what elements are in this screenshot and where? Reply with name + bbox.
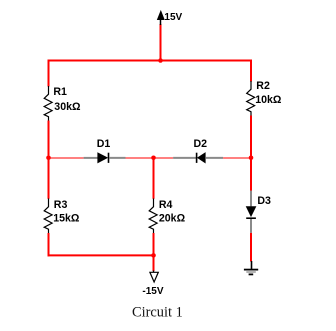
junction node: right rail / middle rail: [249, 156, 254, 161]
svg-text:15kΩ: 15kΩ: [53, 212, 80, 224]
ground: [244, 261, 258, 274]
wire: right rail upper: [250, 60, 252, 82]
resistor R2: [247, 81, 255, 116]
svg-text:D1: D1: [97, 138, 111, 150]
junction node: left rail / middle rail: [46, 156, 51, 161]
svg-text:10kΩ: 10kΩ: [255, 94, 282, 106]
resistor R3: [44, 199, 52, 234]
junction node: middle rail / R4 branch: [151, 156, 156, 161]
svg-text:R1: R1: [53, 86, 67, 98]
wire: +15V stem: [160, 24, 162, 61]
svg-text:D3: D3: [257, 195, 271, 207]
diode D1: [84, 153, 126, 163]
wire: top rail: [48, 60, 253, 62]
wire: middle rail segment C: [223, 157, 251, 159]
wire: right rail lower: [250, 233, 252, 262]
diode D2: [173, 153, 223, 163]
junction node: bottom rail / -15V: [151, 253, 156, 258]
svg-text:20kΩ: 20kΩ: [159, 212, 186, 224]
svg-text:30kΩ: 30kΩ: [54, 101, 81, 113]
svg-text:R2: R2: [256, 80, 270, 92]
power -15V arrow: [150, 271, 158, 283]
wire: bottom rail: [48, 254, 155, 256]
wire: left rail middle: [48, 121, 50, 199]
svg-text:Circuit 1: Circuit 1: [132, 304, 183, 320]
junction node: top rail / +15V: [158, 58, 163, 63]
wire: middle rail segment B: [126, 157, 174, 159]
resistor R1: [44, 86, 52, 121]
svg-text:D2: D2: [194, 138, 208, 150]
svg-text:R4: R4: [159, 199, 173, 211]
power +15V arrow: [157, 11, 164, 25]
wire: center stem upper (R4 branch): [153, 158, 155, 199]
svg-text:R3: R3: [54, 199, 68, 211]
diode D3: [246, 191, 256, 233]
wire: right rail middle: [250, 116, 252, 191]
wire: middle rail segment A: [49, 157, 84, 159]
svg-text:-15V: -15V: [142, 286, 163, 297]
wire: left rail lower: [48, 233, 50, 256]
svg-text:15V: 15V: [164, 12, 182, 23]
wire: center stem lower: [153, 233, 155, 271]
resistor R4: [149, 199, 157, 234]
wire: left rail upper: [48, 60, 50, 87]
